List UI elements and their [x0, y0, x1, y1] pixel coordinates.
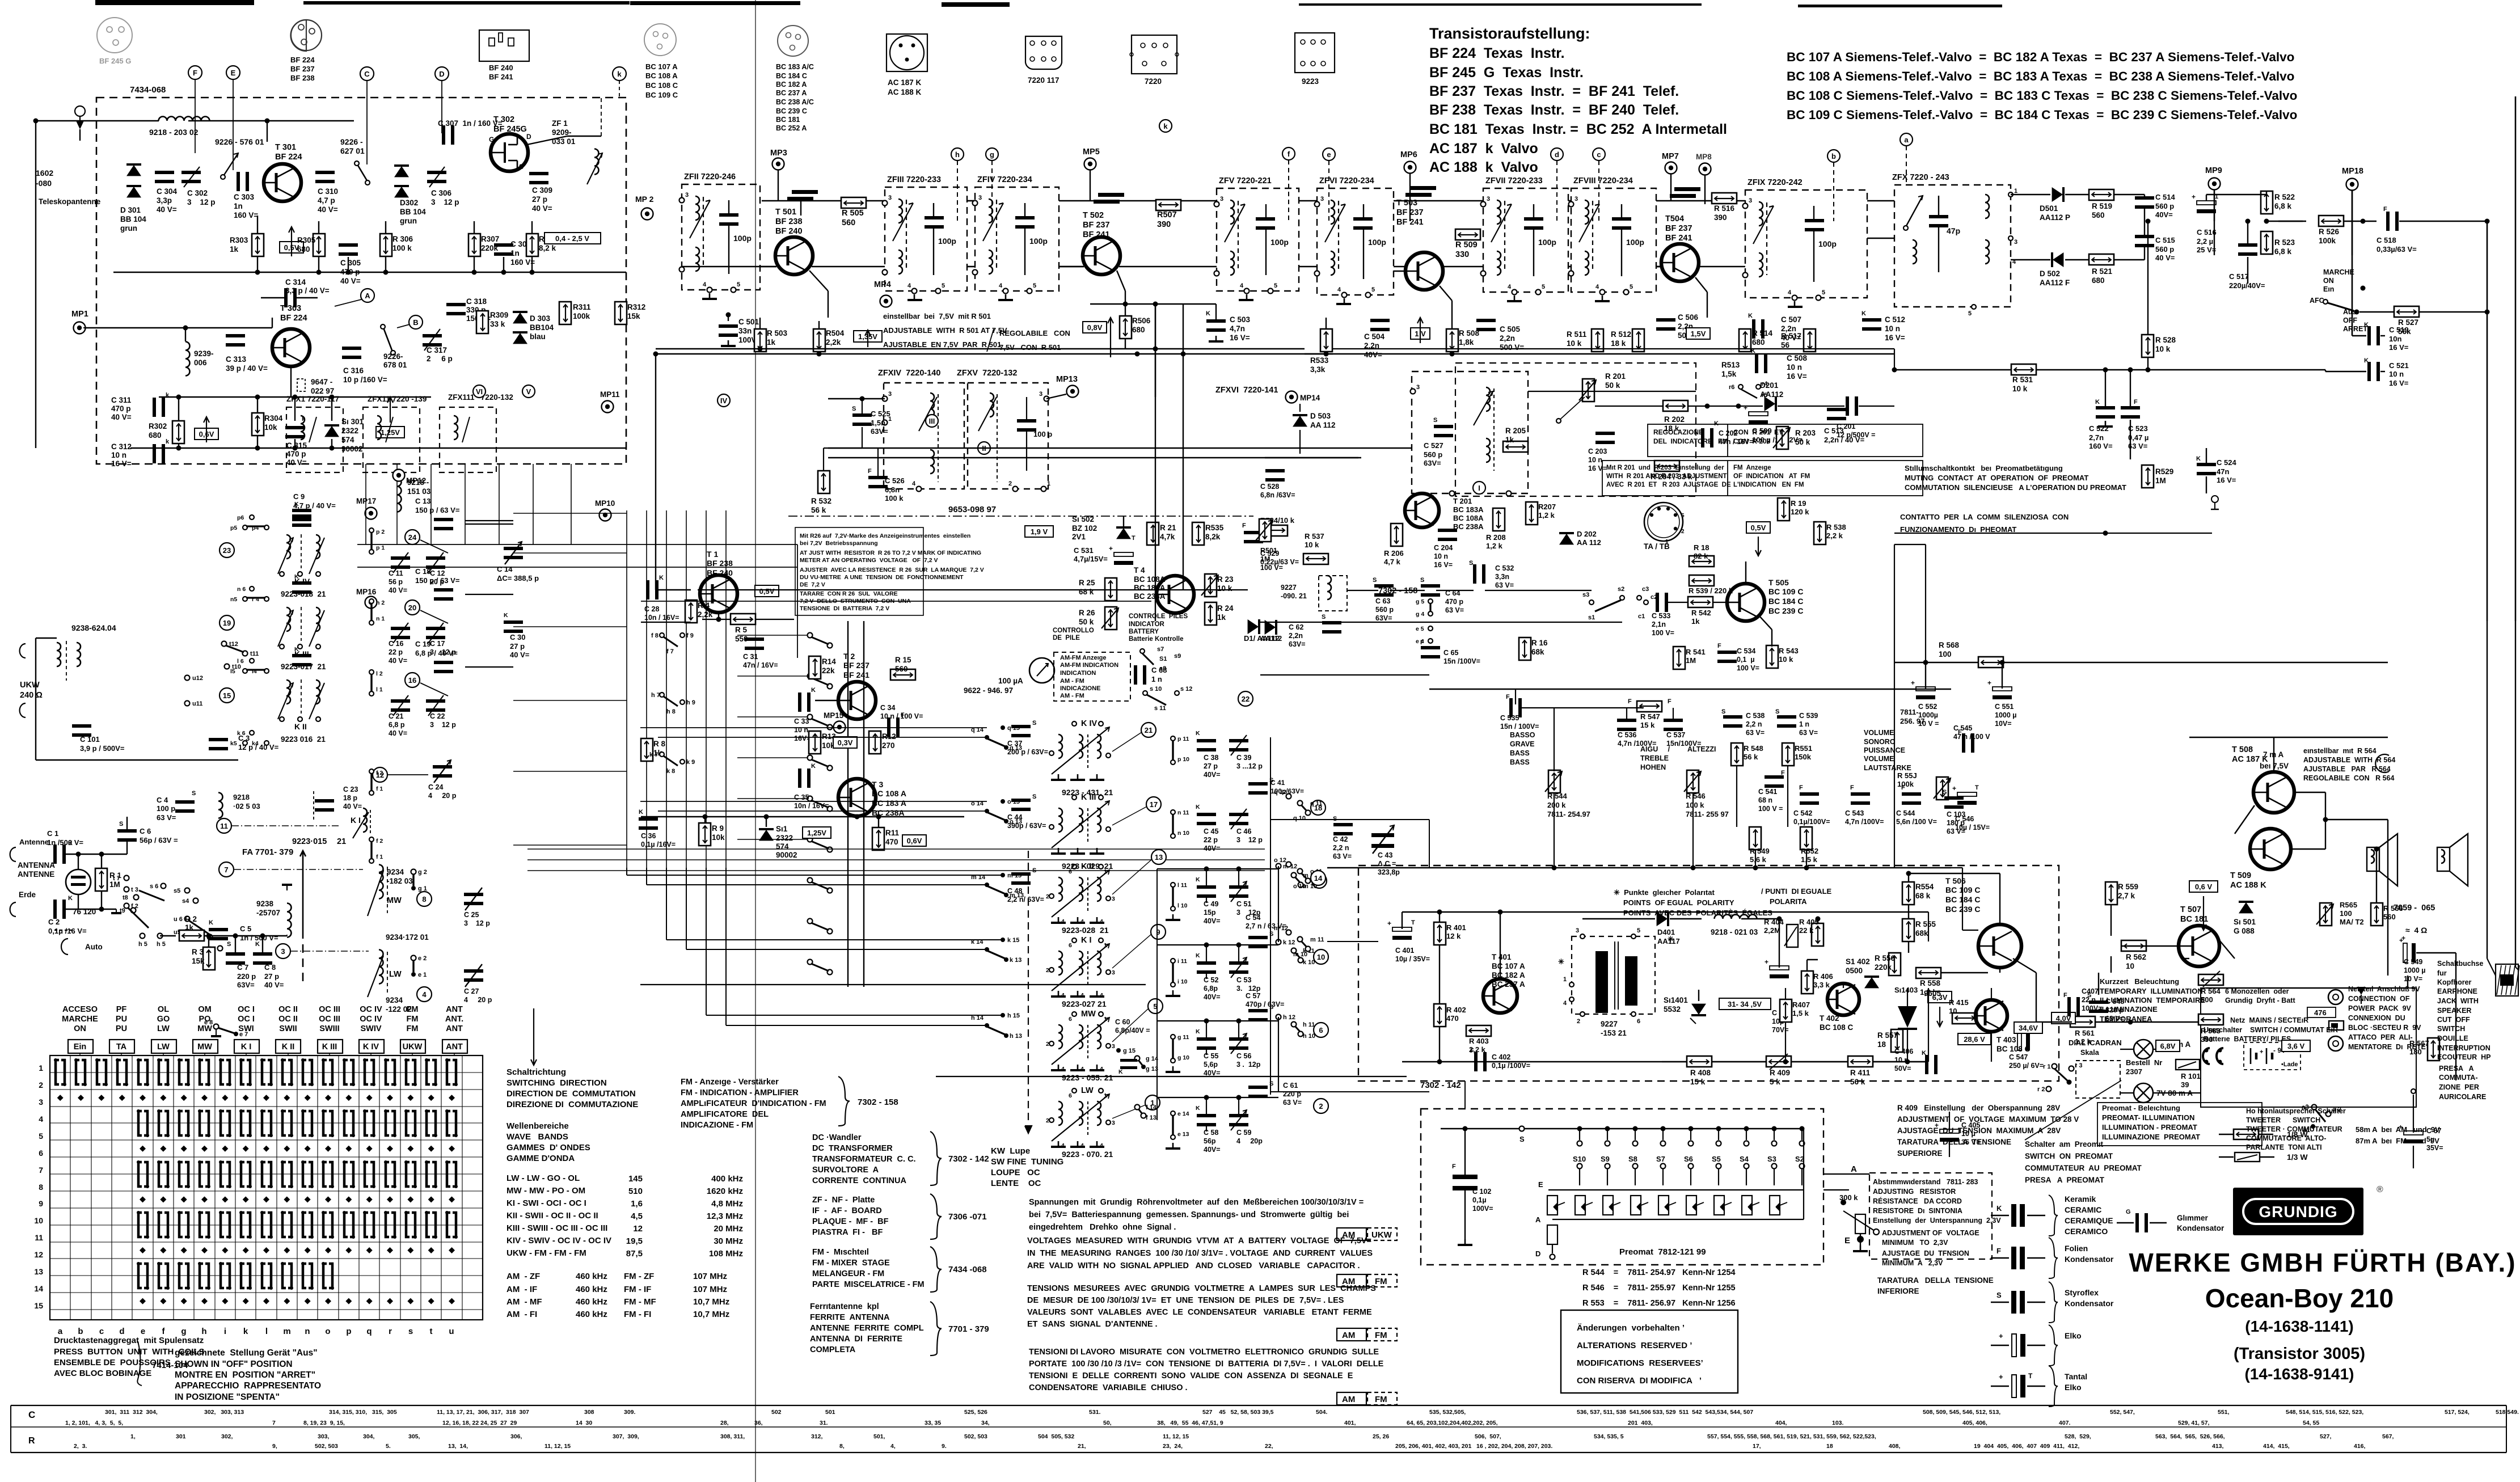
svg-text:3: 3: [1576, 927, 1579, 934]
pot R553: [1936, 777, 1948, 800]
switch S5: [1716, 1126, 1721, 1131]
resistor R516: [1712, 193, 1737, 204]
svg-text:C 514: C 514: [2155, 193, 2175, 201]
svg-text:476: 476: [2314, 1008, 2327, 1017]
svg-text:3,3k: 3,3k: [1310, 365, 1326, 374]
svg-text:23: 23: [223, 546, 231, 555]
svg-text:C 34: C 34: [880, 704, 895, 712]
svg-text:4: 4: [907, 282, 911, 289]
svg-text:0,1µ /100V=: 0,1µ /100V=: [1492, 1062, 1530, 1070]
svg-text:R 19: R 19: [1791, 499, 1806, 508]
svg-text:4: 4: [1061, 1066, 1065, 1073]
wire T504 emitter: [1695, 277, 1707, 292]
svg-text:2,7 k: 2,7 k: [2118, 892, 2135, 900]
svg-text:10k: 10k: [264, 423, 277, 432]
capacitor C28: [646, 580, 649, 599]
svg-text:7811- 255 97: 7811- 255 97: [1686, 810, 1729, 818]
svg-text:CON R 201 ET: CON R 201 ET: [1733, 428, 1783, 436]
svg-text:n 11: n 11: [1177, 809, 1189, 816]
resistor R312: [615, 302, 627, 324]
svg-text:MP13: MP13: [1056, 375, 1078, 384]
svg-text:ANTENNA: ANTENNA: [18, 861, 55, 869]
svg-text:g 13: g 13: [1146, 1066, 1158, 1073]
svg-text:309.: 309.: [624, 1409, 636, 1416]
svg-text:303,: 303,: [318, 1433, 330, 1440]
svg-text:AA112: AA112: [1760, 390, 1783, 399]
svg-text:529, 41, 57,: 529, 41, 57,: [2178, 1420, 2210, 1426]
svg-text:R 408: R 408: [1690, 1069, 1711, 1077]
svg-text:1k: 1k: [1691, 617, 1700, 626]
node D: [435, 67, 449, 81]
svg-text:C 527: C 527: [1424, 441, 1443, 450]
svg-text:p5: p5: [230, 525, 237, 531]
svg-text:h: h: [955, 150, 960, 159]
capacitor C513: [1827, 408, 1846, 411]
capacitor C1: [53, 845, 57, 864]
svg-text:e 13: e 13: [1177, 1131, 1189, 1138]
svg-text:10: 10: [1949, 1007, 1957, 1015]
svg-text:3: 3: [888, 195, 892, 201]
svg-text:BC 108 A: BC 108 A: [872, 789, 906, 798]
wire zfxvi link: [1528, 430, 1696, 432]
svg-text:C 401: C 401: [1395, 947, 1414, 955]
wire capcol: [1157, 868, 1278, 869]
svg-text:BC 108A: BC 108A: [1134, 575, 1166, 584]
capacitor C42: [1333, 823, 1353, 826]
svg-text:510: 510: [628, 1187, 643, 1196]
svg-text:Umschalter SWITCH / COMMUTA: Umschalter SWITCH / COMMUTAT EıR: [2204, 1026, 2338, 1034]
wire audio rail to T506: [1951, 867, 1962, 868]
svg-text:BC 237 A: BC 237 A: [776, 89, 807, 97]
capacitor C515: [2135, 235, 2154, 238]
svg-text:FM - INDICATION - AMPLIFIER: FM - INDICATION - AMPLIFIER: [681, 1088, 799, 1097]
svg-text:BC 238A: BC 238A: [1134, 592, 1166, 601]
transistor T2: [838, 682, 876, 719]
lamp 2: [2134, 1083, 2153, 1103]
svg-text:5: 5: [1542, 284, 1545, 290]
svg-text:5 k: 5 k: [1770, 1078, 1780, 1086]
wire pw bottom: [1402, 1061, 1928, 1062]
svg-text:ALTERATIONS RESERVED ’: ALTERATIONS RESERVED ’: [1577, 1341, 1692, 1350]
svg-text:390: 390: [1157, 220, 1171, 229]
svg-text:ALTEZZI: ALTEZZI: [1687, 745, 1716, 753]
contacts h5 pair: [140, 934, 145, 939]
svg-text:AC 187 K: AC 187 K: [888, 78, 922, 87]
svg-text:PORTATE 100 /30 /10 /3 /1V=: PORTATE 100 /30 /10 /3 /1V= CON TENSIONE…: [1029, 1359, 1384, 1369]
resistor R548: [1731, 743, 1743, 766]
svg-text:C 35: C 35: [794, 793, 809, 801]
svg-text:G: G: [2126, 1209, 2131, 1215]
coil MW 9234-182 03: [379, 865, 383, 899]
node 4: [417, 987, 432, 1002]
svg-text:Kondensator: Kondensator: [2065, 1299, 2114, 1308]
resistor R3: [203, 947, 215, 970]
svg-text:11: 11: [220, 822, 228, 830]
svg-text:h 11: h 11: [1303, 1021, 1315, 1028]
svg-text:JACK WITH: JACK WITH: [2437, 997, 2479, 1005]
svg-text:R507: R507: [1157, 210, 1177, 219]
svg-text:MP5: MP5: [1083, 147, 1100, 157]
switch S4: [1744, 1126, 1749, 1131]
svg-text:PARTE MISCELATRICE - FM: PARTE MISCELATRICE - FM: [812, 1280, 925, 1289]
svg-text:BB 104: BB 104: [120, 215, 146, 223]
svg-text:BC 109 C Siemens-Telef.-Valvo: BC 109 C Siemens-Telef.-Valvo = BC 184 C…: [1787, 108, 2297, 122]
crystal 9647-022 97: [297, 379, 305, 391]
capacitor C48: [1011, 872, 1031, 876]
capacitor C67: [2404, 1131, 2423, 1135]
svg-text:S: S: [1775, 708, 1779, 715]
svg-text:22 p: 22 p: [389, 648, 403, 656]
svg-text:R 411: R 411: [1850, 1069, 1871, 1077]
svg-text:SWITCH ON PREOMAT: SWITCH ON PREOMAT: [2025, 1152, 2113, 1160]
svg-text:e 8: e 8: [204, 1019, 213, 1026]
svg-text:9227: 9227: [1281, 584, 1297, 592]
contacts f7 f8 f9: [660, 633, 664, 637]
wire bottom band bus: [640, 984, 1146, 985]
junction dots misc: [1153, 347, 1158, 352]
svg-text:KIII - SWIII - OC III - OC III: KIII - SWIII - OC III - OC III: [506, 1223, 607, 1233]
switch S9: [1605, 1126, 1610, 1131]
capacitor C404: [1770, 966, 1789, 970]
svg-text:25 V=: 25 V=: [2197, 246, 2217, 254]
svg-text:®: ®: [2377, 1185, 2383, 1194]
svg-text:R 537: R 537: [1305, 532, 1324, 541]
svg-text:C 303: C 303: [234, 193, 255, 201]
svg-text:C 311: C 311: [111, 396, 132, 404]
svg-text:R 26: R 26: [1079, 609, 1095, 617]
svg-text:BF 224 Texas Instr.: BF 224 Texas Instr.: [1429, 45, 1565, 61]
svg-text:-25707: -25707: [256, 909, 280, 917]
capacitor C541: [1765, 775, 1784, 779]
svg-text:R 2: R 2: [185, 915, 197, 923]
svg-text:G 088: G 088: [2234, 927, 2255, 935]
svg-text:4: 4: [39, 1114, 43, 1124]
svg-text:18 k: 18 k: [1611, 339, 1626, 348]
wire: [856, 816, 858, 817]
svg-text:S: S: [1032, 720, 1036, 727]
svg-text:GAMMES D' ONDES: GAMMES D' ONDES: [506, 1143, 590, 1152]
capacitor C549: [2403, 943, 2407, 962]
svg-text:BF 237: BF 237: [290, 65, 315, 73]
svg-text:36,: 36,: [754, 1420, 763, 1426]
svg-text:C 14: C 14: [497, 565, 513, 573]
svg-text:47p: 47p: [1947, 226, 1960, 235]
svg-text:9218 - 021 03: 9218 - 021 03: [1711, 928, 1758, 936]
svg-text:eingedrehtem Drehko ohne S: eingedrehtem Drehko ohne Signal .: [1029, 1223, 1176, 1232]
wire: [967, 200, 975, 202]
svg-text:MP3: MP3: [770, 149, 787, 158]
svg-text:C 313: C 313: [226, 355, 247, 364]
coil 9218-151 03: [397, 478, 402, 512]
svg-text:R 201: R 201: [1605, 372, 1626, 381]
svg-text:R303: R303: [230, 236, 248, 244]
wire to T508/T509: [2235, 805, 2255, 834]
svg-text:OC IV: OC IV: [360, 1015, 382, 1024]
svg-text:K: K: [1714, 420, 1719, 427]
svg-text:3: 3: [1749, 197, 1752, 204]
svg-text:23, 24,: 23, 24,: [1163, 1443, 1183, 1450]
svg-text:S: S: [227, 941, 231, 948]
buses under IF: [828, 447, 1265, 449]
svg-text:4: 4: [1100, 918, 1103, 925]
resistor R538: [1814, 522, 1826, 544]
svg-text:S: S: [1433, 417, 1437, 424]
svg-text:R 203: R 203: [1795, 429, 1816, 437]
svg-text:C 54: C 54: [1246, 914, 1260, 922]
svg-text:56p: 56p: [1204, 1137, 1216, 1145]
svg-text:470p / 63V=: 470p / 63V=: [1246, 1000, 1284, 1008]
svg-text:o 15: o 15: [1007, 799, 1020, 805]
svg-text:12: 12: [34, 1250, 43, 1259]
svg-text:C 501: C 501: [738, 318, 759, 326]
potentiometer R23: [1205, 574, 1217, 597]
svg-text:3 12 p: 3 12 p: [187, 198, 216, 206]
pot R565: [2320, 903, 2332, 926]
svg-text:MP18: MP18: [2342, 167, 2363, 176]
svg-text:K: K: [1861, 310, 1866, 317]
resistor R202: [1663, 400, 1688, 411]
svg-text:e 14: e 14: [1177, 1111, 1189, 1117]
svg-text:1: 1: [1665, 539, 1669, 545]
svg-text:15 k: 15 k: [1690, 1078, 1706, 1086]
svg-text:TARATURA DELLA TENSIONE: TARATURA DELLA TENSIONE: [1877, 1276, 1994, 1285]
svg-text:C 309: C 309: [532, 186, 552, 195]
svg-text:e 1: e 1: [418, 972, 427, 978]
muting contact symbol: [2211, 496, 2218, 503]
svg-text:TENSIONS MESUREES AVEC GRUN: TENSIONS MESUREES AVEC GRUNDIG VOLTMETRE…: [1027, 1284, 1376, 1293]
svg-text:BF 240: BF 240: [707, 568, 733, 577]
svg-text:n 10: n 10: [1177, 830, 1189, 837]
svg-text:ADJUSTABLE WITH R 564: ADJUSTABLE WITH R 564: [2303, 756, 2395, 764]
svg-text:HOHEN: HOHEN: [1640, 763, 1666, 771]
svg-text:AT JUST WITH RESISTOR R 26 T: AT JUST WITH RESISTOR R 26 TO 7,2 V MARK…: [800, 550, 981, 556]
svg-text:201 403,: 201 403,: [1628, 1420, 1653, 1426]
trimmer C16 C17: [391, 627, 410, 630]
pot R409: [1766, 1056, 1791, 1067]
IF transformer ZFV 7220-221: [1217, 188, 1299, 291]
band coil unit K II: [292, 654, 311, 657]
svg-text:33 k: 33 k: [490, 320, 505, 328]
button box MW: [193, 1040, 218, 1053]
svg-text:SPEAKER: SPEAKER: [2437, 1007, 2471, 1015]
svg-text:WERKE GMBH FÜRTH (BAY.): WERKE GMBH FÜRTH (BAY.): [2129, 1248, 2516, 1277]
svg-text:2V1: 2V1: [1072, 533, 1086, 541]
svg-text:405, 406,: 405, 406,: [1962, 1420, 1987, 1426]
ZFXII dashed box: [363, 407, 420, 472]
contacts s10 s11 s12: [1143, 691, 1147, 695]
svg-text:21: 21: [1145, 726, 1153, 734]
svg-text:+: +: [1744, 404, 1747, 412]
svg-text:10,7 MHz: 10,7 MHz: [693, 1297, 729, 1307]
svg-text:ZF 1: ZF 1: [552, 119, 568, 128]
svg-text:100p: 100p: [733, 234, 752, 243]
svg-text:l 2: l 2: [376, 670, 383, 677]
svg-text:7302 - 158: 7302 - 158: [858, 1097, 898, 1107]
svg-text:AA 112: AA 112: [1310, 421, 1336, 429]
svg-text:F: F: [1717, 643, 1721, 649]
svg-text:6,8p: 6,8p: [1204, 985, 1218, 993]
svg-text:C 312: C 312: [111, 442, 132, 451]
svg-text:27 p: 27 p: [510, 642, 525, 651]
svg-text:Sı1403: Sı1403: [1894, 986, 1918, 994]
svg-text:CONTROLLO: CONTROLLO: [1053, 627, 1094, 634]
svg-text:BF 240: BF 240: [489, 64, 513, 72]
switch S8: [1633, 1126, 1638, 1131]
svg-text:820 p: 820 p: [2105, 1006, 2124, 1014]
svg-text:grun: grun: [400, 217, 417, 225]
capacitor legend Keramik: [1991, 1215, 2009, 1216]
svg-text:Bestell Nr: Bestell Nr: [2126, 1058, 2162, 1067]
svg-text:16 V=: 16 V=: [111, 459, 132, 468]
contact ladder left bank: [808, 633, 813, 638]
svg-text:f 1: f 1: [376, 786, 383, 792]
svg-text:68k: 68k: [1531, 648, 1544, 656]
svg-text:ACCESO: ACCESO: [62, 1005, 98, 1014]
svg-text:13: 13: [1155, 853, 1163, 862]
svg-text:18 p: 18 p: [343, 794, 357, 802]
resistor R309: [476, 311, 488, 333]
contacts k15 k14 k13: [1001, 938, 1005, 942]
contacts h12 h11 h10: [1276, 1015, 1281, 1020]
svg-text:MP12: MP12: [406, 476, 426, 485]
svg-text:Keramik: Keramik: [2065, 1194, 2096, 1204]
svg-text:BC 108 C: BC 108 C: [1820, 1023, 1854, 1032]
resistor R559: [2105, 882, 2117, 905]
IF transformer ZFX 7220-243: [1894, 185, 2011, 307]
svg-text:m 10: m 10: [1293, 951, 1307, 958]
capacitor C304: [155, 171, 174, 174]
svg-text:R 4: R 4: [698, 601, 710, 610]
voltage 3,6V: [2282, 1040, 2310, 1052]
svg-text:LOUPE OC: LOUPE OC: [991, 1168, 1040, 1177]
svg-text:0,33µ/63 V=: 0,33µ/63 V=: [2377, 245, 2417, 254]
wire: [1125, 304, 1126, 315]
svg-text:107 MHz: 107 MHz: [693, 1285, 727, 1294]
capacitor C6: [117, 829, 137, 833]
svg-text:K: K: [1206, 310, 1210, 317]
svg-text:4: 4: [1080, 1066, 1084, 1073]
svg-text:103.: 103.: [1832, 1420, 1844, 1426]
MP14: [1286, 391, 1298, 403]
svg-text:C 503: C 503: [1230, 315, 1251, 324]
voltage 0,5V: [1746, 522, 1770, 533]
svg-text:10n / 16V=: 10n / 16V=: [644, 614, 679, 622]
switch in ZFX: [1906, 196, 1923, 227]
node k: [613, 67, 626, 81]
svg-text:10: 10: [2126, 962, 2134, 970]
button box ANT: [442, 1040, 467, 1053]
resistor R531: [2011, 364, 2036, 375]
capacitor C545: [1962, 733, 1965, 753]
svg-text:560 p: 560 p: [2155, 245, 2174, 254]
svg-text:OF INDICATION AT FM: OF INDICATION AT FM: [1733, 473, 1810, 480]
svg-text:AC 188 K: AC 188 K: [2230, 881, 2266, 890]
svg-text:1: 1: [2014, 188, 2017, 195]
svg-text:C 42: C 42: [1333, 835, 1348, 843]
svg-text:10 k: 10 k: [1305, 541, 1319, 549]
transistor T402: [1827, 983, 1859, 1015]
svg-text:16 V=: 16 V=: [1588, 465, 1607, 472]
svg-text:R309: R309: [490, 311, 508, 319]
capacitor C539: [1777, 715, 1796, 719]
svg-text:MELANGEUR - FM: MELANGEUR - FM: [812, 1269, 884, 1278]
svg-text:✳ Punkte gleıcher Polarıtat: ✳ Punkte gleıcher Polarıtat: [1614, 888, 1715, 897]
svg-text:9218 - 203 02: 9218 - 203 02: [149, 128, 199, 137]
voltage 6,8V: [2156, 1040, 2180, 1052]
svg-text:BF 238 Texas Instr. = BF 2: BF 238 Texas Instr. = BF 240 Telef.: [1429, 102, 1679, 118]
capacitor C303: [237, 172, 240, 191]
voltage 0,3V: [833, 737, 857, 748]
resistor R547: [1637, 701, 1662, 712]
resistor R302: [172, 421, 184, 444]
svg-text:1 n: 1 n: [1799, 720, 1809, 728]
svg-text:ZFIV 7220-234: ZFIV 7220-234: [977, 175, 1032, 184]
transistor T201: [1405, 493, 1439, 527]
svg-text:AURICOLARE: AURICOLARE: [2439, 1093, 2486, 1101]
svg-text:9238: 9238: [256, 900, 274, 908]
svg-text:R 202: R 202: [1664, 415, 1685, 424]
svg-text:5: 5: [1371, 286, 1375, 293]
svg-text:r6: r6: [1729, 384, 1734, 391]
svg-text:T 302: T 302: [493, 115, 514, 124]
push-button switch matrix grid: [49, 1055, 50, 1320]
wire staircase verticals: [626, 868, 627, 875]
svg-text:100 k: 100 k: [885, 494, 904, 503]
speaker right: [2437, 847, 2450, 871]
svg-text:k 12: k 12: [1283, 939, 1295, 946]
svg-text:UKW: UKW: [20, 681, 40, 690]
svg-text:3 12 p: 3 12 p: [430, 721, 456, 729]
svg-text:470: 470: [885, 838, 898, 846]
svg-text:R 16: R 16: [1531, 639, 1548, 647]
package outline 7220: [1132, 35, 1177, 74]
wire reg row: [1662, 1061, 1687, 1062]
resistor R18: [1689, 556, 1714, 567]
svg-text:FUNZIONAMENTO Dı PHEOMAT: FUNZIONAMENTO Dı PHEOMAT: [1900, 525, 2016, 534]
svg-text:528, 529,: 528, 529,: [2065, 1433, 2091, 1440]
svg-text:u12: u12: [192, 675, 203, 682]
svg-text:i 11: i 11: [1177, 958, 1187, 965]
svg-text:6: 6: [1637, 1018, 1640, 1025]
svg-text:Batterıe BATTERY/ PILES: Batterıe BATTERY/ PILES: [2204, 1035, 2291, 1043]
svg-text:BC 239 C: BC 239 C: [1768, 606, 1803, 615]
svg-text:Abstımmwıderstand 7811- 283: Abstımmwıderstand 7811- 283: [1873, 1178, 1978, 1186]
svg-text:C 524: C 524: [2217, 458, 2236, 467]
svg-text:1,6: 1,6: [631, 1199, 643, 1209]
svg-text:g 10: g 10: [1177, 1054, 1189, 1061]
svg-text:7434-068: 7434-068: [130, 85, 166, 95]
capacitor C31: [745, 637, 764, 641]
svg-text:FM - MIXER STAGE: FM - MIXER STAGE: [812, 1259, 890, 1268]
svg-text:678 01: 678 01: [383, 361, 407, 369]
svg-text:ANT: ANT: [446, 1005, 463, 1014]
svg-text:400 kHz: 400 kHz: [711, 1174, 743, 1184]
svg-text:9226 -: 9226 -: [340, 137, 363, 146]
svg-text:6,8 k: 6,8 k: [2274, 247, 2292, 256]
wire AM left edge: [655, 354, 656, 590]
diode St301: [324, 426, 339, 437]
svg-text:100p: 100p: [1818, 239, 1837, 248]
svg-text:LW: LW: [389, 970, 402, 979]
resistor R407: [1780, 999, 1792, 1022]
svg-text:-182 03: -182 03: [387, 877, 413, 885]
svg-text:301, 311 312 304,: 301, 311 312 304,: [105, 1409, 158, 1416]
svg-text:K: K: [1196, 876, 1200, 883]
resistor R507: [1156, 200, 1181, 210]
svg-text:680: 680: [1752, 338, 1765, 347]
resistor R304: [252, 413, 264, 436]
svg-text:4: 4: [1061, 1142, 1065, 1149]
